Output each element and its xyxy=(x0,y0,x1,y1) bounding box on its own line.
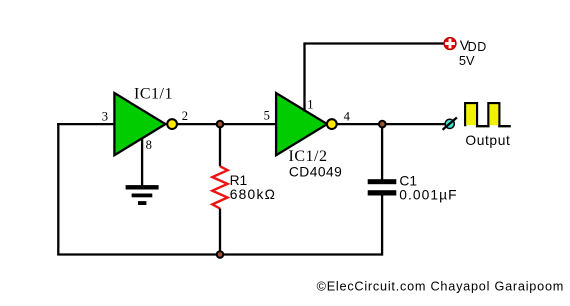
svg-text:IC1/2: IC1/2 xyxy=(289,148,328,165)
wire: R1 bottom lead xyxy=(219,209,221,255)
wire: bottom feedback wire xyxy=(57,253,382,255)
svg-text:5V: 5V xyxy=(459,53,475,68)
wire: C1 top lead xyxy=(381,124,383,179)
output terminal xyxy=(443,118,457,130)
svg-text:3: 3 xyxy=(102,110,108,124)
node junction at R1 top xyxy=(216,120,225,129)
wire: IC1/1 output to IC1/2 input xyxy=(178,123,277,125)
wire: C1 bottom lead xyxy=(381,195,383,255)
resistor R1 zigzag xyxy=(212,166,227,208)
node junction at C1 top xyxy=(378,120,387,129)
svg-text:IC1/1: IC1/1 xyxy=(134,86,173,103)
wire: input wire from left rail to IC1/1 xyxy=(57,123,114,125)
svg-text:1: 1 xyxy=(307,98,313,112)
waveform icon at output xyxy=(465,103,511,126)
svg-text:CD4049: CD4049 xyxy=(289,164,342,179)
svg-text:Output: Output xyxy=(465,133,510,148)
wire: R1 top lead xyxy=(219,124,221,166)
svg-text:680kΩ: 680kΩ xyxy=(230,187,276,202)
svg-text:R1: R1 xyxy=(230,173,248,188)
wire: IC1/2 output to output terminal xyxy=(337,123,445,125)
svg-text:C1: C1 xyxy=(399,174,417,189)
svg-text:0.001µF: 0.001µF xyxy=(399,187,457,202)
inverting bubble of IC1/1 xyxy=(167,119,177,129)
wire: left vertical rail xyxy=(57,123,59,255)
svg-text:8: 8 xyxy=(146,138,152,152)
ground xyxy=(126,185,159,205)
wire: IC1/1 pin 8 to ground xyxy=(141,138,143,187)
capacitor C1 plates xyxy=(368,179,397,195)
power VDD symbol xyxy=(444,37,456,49)
svg-text:4: 4 xyxy=(344,109,351,123)
svg-text:2: 2 xyxy=(182,109,188,123)
wire: IC1/2 pin 1 up to VDD rail xyxy=(303,44,305,112)
svg-text:5: 5 xyxy=(264,109,270,123)
svg-text:©ElecCircuit.com Chayapol Gara: ©ElecCircuit.com Chayapol Garaipoom xyxy=(317,280,564,294)
svg-text:DD: DD xyxy=(468,40,487,54)
wire: top rail to VDD symbol xyxy=(303,42,444,44)
op-amp U1 inverter IC1/1 triangle xyxy=(114,93,165,155)
node junction at bottom of R1 xyxy=(216,250,225,259)
inverting bubble of IC1/2 xyxy=(327,119,337,129)
op-amp U2 inverter IC1/2 triangle xyxy=(276,93,327,155)
